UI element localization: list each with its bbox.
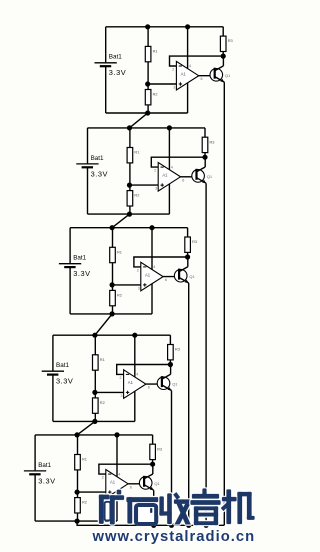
battery Bat1 (stage 5): [24, 462, 56, 486]
watermark char 音: [191, 489, 221, 526]
transistor collector stroke: [215, 66, 224, 71]
svg-text:3: 3: [155, 187, 157, 191]
watermark char 机: [221, 490, 255, 525]
inverting input minus mark: [126, 373, 129, 375]
transistor base bar: [178, 269, 180, 280]
node: stage 4 R1/R2 divider junction: [92, 390, 97, 395]
svg-text:6: 6: [201, 77, 203, 81]
wire: stage 4 op-amp pin 4 to top rail: [134, 335, 136, 377]
non-inverting input plus mark: [143, 283, 146, 286]
resistor R3 (stage 3): [185, 228, 197, 257]
inverting input minus mark: [143, 266, 146, 268]
svg-text:Bat1: Bat1: [109, 54, 122, 61]
wire: stage 4 feedback (pin 2 up and over to collector node): [117, 365, 171, 375]
emitter arrow: [220, 79, 224, 82]
battery minus plate: [100, 65, 111, 67]
transistor emitter stroke: [144, 485, 154, 491]
battery plus plate: [42, 370, 64, 372]
wire: stage 5 bottom rail: [35, 520, 117, 522]
resistor R3 (stage 4): [168, 335, 180, 364]
svg-text:R3: R3: [228, 38, 233, 43]
resistor R2 (stage 4): [93, 392, 105, 421]
wire: stage 5 op-amp pin 4 to top rail: [116, 435, 118, 477]
svg-text:R1: R1: [117, 249, 122, 254]
svg-text:3: 3: [138, 287, 140, 291]
transistor collector stroke: [144, 474, 153, 479]
svg-text:4: 4: [153, 265, 155, 269]
svg-text:R2: R2: [117, 292, 122, 297]
wire: stage 4 op-amp output to Q1 base: [146, 383, 162, 385]
wire: stage 2 op-amp pin 7 down to bottom rail: [168, 184, 170, 214]
wire: stage 4 bottom to stage 5 top diagonal: [77, 421, 95, 435]
op-amp A1 (stage 1): [172, 61, 202, 90]
svg-text:A1: A1: [162, 173, 168, 178]
inverting input minus mark: [108, 473, 111, 475]
node: stage 3 top rail / pin4 junction: [149, 225, 154, 230]
svg-text:www.crystalradio.cn: www.crystalradio.cn: [92, 529, 256, 545]
wire: stage 4 bottom rail: [53, 420, 135, 422]
wire: stage 5 divider to op-amp pin 3: [77, 491, 106, 493]
svg-text:2: 2: [154, 169, 156, 173]
svg-text:R3: R3: [157, 446, 162, 451]
resistor R1 (stage 4): [93, 335, 105, 392]
node: stage 1 R2 bottom / bottom rail junction: [145, 110, 150, 115]
inverting input minus mark: [161, 166, 164, 168]
resistor R3 (stage 2): [202, 128, 214, 157]
svg-text:6: 6: [165, 278, 167, 282]
wire: stage 2 divider to op-amp pin 3: [130, 184, 159, 186]
battery Bat1 (stage 4): [42, 362, 74, 386]
wire: stage 1 bottom rail: [106, 112, 188, 114]
svg-text:Bat1: Bat1: [38, 462, 51, 469]
svg-text:2: 2: [172, 68, 174, 72]
non-inverting input plus mark: [179, 82, 182, 85]
node: bus junction 2: [169, 523, 174, 528]
svg-text:A1: A1: [110, 480, 116, 485]
svg-text:Q1: Q1: [172, 382, 178, 387]
op-amp A1 (stage 3): [137, 262, 167, 291]
wire: stage 5 op-amp output to Q1 base: [128, 483, 144, 485]
node: stage 3 R1/R2 divider junction: [110, 282, 115, 287]
resistor R2 (stage 2): [127, 185, 139, 214]
non-inverting input plus mark: [126, 391, 129, 394]
wire: stage 5 emitter down to ground bus: [153, 490, 155, 525]
transistor base bar: [195, 169, 197, 180]
watermark char 收: [160, 492, 191, 524]
op-amp A1 (stage 2): [154, 163, 184, 192]
wire: stage 4 top rail: [53, 334, 170, 336]
transistor collector stroke: [197, 167, 206, 172]
wire: stage 1 bottom to stage 2 top diagonal: [130, 113, 148, 128]
node: stage 2 top rail / pin4 junction: [167, 125, 172, 130]
resistor R3 (stage 5): [150, 435, 162, 464]
wire: stage 3 collector up to R3: [187, 257, 189, 267]
battery minus plate: [64, 266, 75, 268]
svg-text:R1: R1: [153, 48, 158, 53]
transistor Q1 (stage 2): [192, 167, 213, 183]
wire: stage 4 divider to op-amp pin 3: [95, 391, 124, 393]
resistor R1 (stage 3): [110, 228, 122, 285]
emitter arrow: [150, 487, 154, 490]
node: stage 1 R1/R2 divider junction: [145, 81, 150, 86]
svg-text:Q1: Q1: [207, 174, 213, 179]
svg-text:Bat1: Bat1: [56, 362, 69, 369]
wire: stage 2 emitter down to ground bus: [205, 183, 207, 525]
node: stage 1 top rail / R1 junction: [145, 24, 150, 29]
node: stage 2 top rail / R1 junction: [127, 125, 132, 130]
wire: stage 4 left wire (battery to top rail): [52, 335, 54, 371]
node: stage 5 collector / R3 / feedback junction: [150, 462, 155, 467]
svg-text:4: 4: [136, 373, 138, 377]
resistor R1 (stage 5): [75, 435, 87, 492]
battery plus plate: [59, 263, 81, 265]
node: stage 4 R2 bottom / bottom rail junction: [92, 419, 97, 424]
svg-text:Q1: Q1: [154, 481, 160, 486]
svg-text:3.3V: 3.3V: [38, 476, 55, 485]
node: stage 3 R2 bottom / bottom rail junction: [110, 311, 115, 316]
wire: stage 4 collector up to R3: [170, 365, 172, 375]
emitter arrow: [202, 180, 206, 183]
resistor R3 (stage 1): [220, 27, 232, 56]
svg-text:3: 3: [121, 394, 123, 398]
node: stage 4 top rail / R1 junction: [92, 333, 97, 338]
transistor base bar: [214, 68, 216, 79]
wire: stage 1 op-amp pin 7 down to bottom rail: [187, 83, 189, 113]
svg-text:Q1: Q1: [225, 73, 231, 78]
watermark char 石: [127, 497, 159, 524]
wire: bottom ground bus: [77, 521, 224, 525]
resistor R2 (stage 5): [75, 492, 87, 521]
resistor R1 (stage 1): [145, 27, 157, 84]
svg-text:A1: A1: [181, 71, 187, 76]
battery minus plate: [47, 374, 58, 376]
battery Bat1 (stage 2): [76, 155, 108, 179]
resistor R2 (stage 1): [145, 84, 157, 113]
svg-text:R1: R1: [82, 457, 87, 462]
wire: stage 4 battery minus to bottom rail: [52, 374, 54, 421]
wire: stage 2 battery minus to bottom rail: [87, 167, 89, 214]
node: bus junction 4: [204, 523, 209, 528]
battery Bat1 (stage 3): [59, 255, 91, 279]
svg-text:3.3V: 3.3V: [109, 68, 126, 77]
svg-text:3: 3: [173, 86, 175, 90]
wire: stage 1 collector up to R3: [222, 56, 224, 66]
wire: stage 3 op-amp pin 7 down to bottom rail: [151, 284, 153, 314]
transistor base bar: [161, 376, 163, 387]
svg-text:4: 4: [171, 165, 173, 169]
wire: stage 5 left wire (battery to top rail): [34, 435, 36, 471]
node: bus junction 3: [186, 523, 191, 528]
wire: stage 5 op-amp pin 7 down to bottom rail: [116, 491, 118, 521]
wire: stage 3 battery minus to bottom rail: [69, 267, 71, 314]
wire: stage 5 feedback (pin 2 up and over to collector node): [99, 464, 153, 474]
battery Bat1 (stage 1): [95, 54, 127, 78]
battery plus plate: [95, 62, 117, 64]
node: stage 5 top rail / pin4 junction: [114, 432, 119, 437]
svg-text:R3: R3: [210, 139, 215, 144]
svg-text:R1: R1: [100, 357, 105, 362]
node: stage 3 top rail / R1 junction: [110, 225, 115, 230]
node: stage 2 R1/R2 divider junction: [127, 183, 132, 188]
transistor collector stroke: [179, 267, 188, 272]
wire: stage 4 op-amp pin 7 down to bottom rail: [134, 391, 136, 421]
svg-text:Bat1: Bat1: [73, 255, 86, 262]
node: stage 3 collector / R3 / feedback junction: [185, 254, 190, 259]
transistor Q1 (stage 3): [174, 267, 195, 283]
node: stage 4 collector / R3 / feedback junction: [168, 362, 173, 367]
wire: stage 2 bottom to stage 3 top diagonal: [112, 214, 129, 228]
wire: stage 3 feedback (pin 2 up and over to collector node): [134, 257, 188, 267]
svg-text:R2: R2: [100, 400, 105, 405]
watermark logo text 矿石收音机: [99, 489, 255, 526]
transistor Q1 (stage 1): [210, 66, 231, 82]
wire: stage 2 collector up to R3: [204, 157, 206, 167]
resistor R2 (stage 3): [110, 285, 122, 314]
svg-text:4: 4: [189, 64, 191, 68]
svg-text:R2: R2: [134, 193, 139, 198]
non-inverting input plus mark: [108, 490, 111, 493]
non-inverting input plus mark: [161, 183, 164, 186]
transistor Q1 (stage 5): [139, 474, 160, 490]
svg-text:R2: R2: [82, 500, 87, 505]
wire: stage 1 battery minus to bottom rail: [105, 66, 107, 113]
wire: stage 5 top rail: [35, 434, 153, 436]
svg-text:R1: R1: [134, 150, 139, 155]
wire: stage 1 left wire (battery to top rail): [105, 27, 107, 63]
battery minus plate: [82, 166, 93, 168]
svg-text:6: 6: [148, 386, 150, 390]
transistor emitter stroke: [197, 178, 207, 184]
svg-text:A1: A1: [128, 380, 134, 385]
svg-text:2: 2: [120, 376, 122, 380]
svg-text:R3: R3: [192, 239, 197, 244]
transistor emitter stroke: [179, 278, 189, 284]
transistor emitter stroke: [215, 77, 225, 83]
node: stage 5 R1/R2 divider junction: [75, 490, 80, 495]
battery plus plate: [24, 470, 46, 472]
battery minus plate: [29, 473, 40, 475]
resistor R1 (stage 2): [127, 128, 139, 185]
wire: stage 2 left wire (battery to top rail): [87, 128, 89, 163]
wire: stage 3 bottom to stage 4 top diagonal: [95, 314, 112, 335]
svg-text:Bat1: Bat1: [91, 155, 104, 162]
svg-text:6: 6: [130, 485, 132, 489]
wire: stage 2 op-amp pin 4 to top rail: [168, 128, 170, 170]
wire: stage 1 top rail: [106, 26, 224, 28]
wire: stage 5 battery minus to bottom rail: [34, 474, 36, 521]
wire: stage 2 op-amp output to Q1 base: [181, 176, 197, 178]
node: stage 1 collector / R3 / feedback junction: [221, 54, 226, 59]
transistor base bar: [143, 476, 145, 487]
svg-text:2: 2: [102, 476, 104, 480]
emitter arrow: [185, 280, 189, 283]
wire: stage 1 emitter down to ground bus: [223, 82, 225, 525]
wire: stage 2 feedback (pin 2 up and over to collector node): [151, 157, 205, 167]
svg-text:R3: R3: [175, 347, 180, 352]
wire: stage 4 emitter down to ground bus: [171, 391, 173, 526]
node: bus junction 1: [151, 523, 156, 528]
node: stage 2 R2 bottom / bottom rail junction: [127, 212, 132, 217]
wire: stage 1 divider to op-amp pin 3: [148, 83, 177, 85]
transistor Q1 (stage 4): [157, 374, 178, 390]
svg-text:2: 2: [137, 269, 139, 273]
svg-text:3.3V: 3.3V: [73, 269, 90, 278]
wire: stage 3 op-amp pin 4 to top rail: [151, 228, 153, 270]
svg-text:3.3V: 3.3V: [91, 169, 108, 178]
wire: stage 3 bottom rail: [70, 313, 152, 315]
svg-text:4: 4: [118, 472, 120, 476]
node: stage 2 collector / R3 / feedback junction: [202, 155, 207, 160]
svg-text:Q1: Q1: [189, 274, 195, 279]
wire: stage 3 emitter down to ground bus: [188, 283, 190, 525]
svg-text:R2: R2: [153, 92, 158, 97]
node: stage 5 top rail / R1 junction: [75, 432, 80, 437]
op-amp A1 (stage 5): [102, 470, 132, 499]
node: stage 1 top rail / pin4 junction: [185, 24, 190, 29]
svg-text:A1: A1: [145, 272, 151, 277]
emitter arrow: [168, 387, 172, 390]
wire: stage 3 left wire (battery to top rail): [69, 228, 71, 264]
watermark char 矿: [99, 490, 124, 525]
transistor emitter stroke: [162, 385, 172, 391]
wire: stage 1 feedback (pin 2 up and over to collector node): [170, 56, 224, 66]
wire: stage 3 top rail: [70, 227, 188, 229]
wire: stage 2 top rail: [88, 127, 206, 129]
svg-text:3.3V: 3.3V: [56, 377, 73, 386]
node: stage 4 top rail / pin4 junction: [132, 333, 137, 338]
battery plus plate: [76, 163, 98, 165]
node: stage 5 R2 bottom / bottom rail junction: [75, 519, 80, 524]
wire: stage 3 op-amp output to Q1 base: [163, 276, 179, 278]
inverting input minus mark: [179, 65, 182, 67]
wire: stage 1 op-amp output to Q1 base: [199, 75, 215, 77]
op-amp A1 (stage 4): [120, 370, 150, 399]
wire: stage 1 op-amp pin 4 to top rail: [187, 27, 189, 69]
wire: stage 2 bottom rail: [88, 213, 170, 215]
wire: stage 5 collector up to R3: [152, 464, 154, 474]
svg-text:6: 6: [182, 178, 184, 182]
transistor collector stroke: [162, 374, 171, 379]
wire: stage 3 divider to op-amp pin 3: [112, 284, 141, 286]
